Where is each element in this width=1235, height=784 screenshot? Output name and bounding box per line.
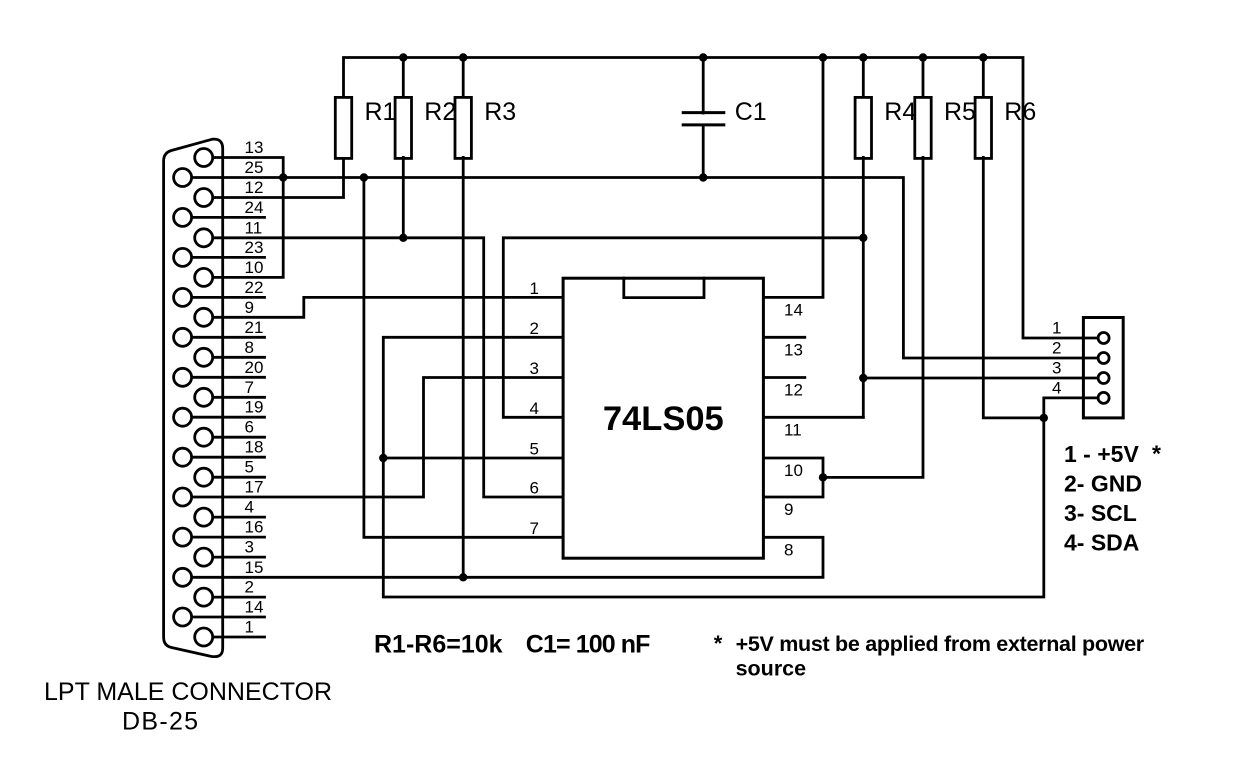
svg-text:1: 1 xyxy=(245,618,254,637)
DB25 pin 13 circle and label xyxy=(195,138,264,167)
svg-text:2: 2 xyxy=(1052,339,1061,358)
node: SDA-R6 junction xyxy=(1040,414,1048,422)
DB25 pin 18 circle and label xyxy=(174,438,264,467)
svg-text:1: 1 xyxy=(1052,319,1061,338)
wire: DB25 pin 18 stub xyxy=(193,456,265,459)
svg-text:*: * xyxy=(1152,441,1161,467)
wire: DB25 pin 7 stub xyxy=(214,396,264,399)
svg-text:5: 5 xyxy=(245,458,254,477)
connector J1 DB-25 male shell xyxy=(164,139,223,657)
svg-text:21: 21 xyxy=(245,318,264,337)
svg-text:3- SCL: 3- SCL xyxy=(1064,500,1137,526)
wire: GND vertical to IC pin7 xyxy=(364,178,565,538)
DB25 pin 15 circle and label xyxy=(174,558,264,587)
svg-text:2: 2 xyxy=(530,319,539,338)
wire: +5V rail with R1 lead and J2 pin1 feed xyxy=(344,58,1098,339)
J2 pin 1 circle and label xyxy=(1052,319,1109,344)
DB25 pin 21 circle and label xyxy=(174,318,264,347)
connector J2 4-pin header body xyxy=(1083,318,1123,418)
svg-text:R1-R6=10k: R1-R6=10k xyxy=(374,630,503,658)
svg-text:2- GND: 2- GND xyxy=(1064,471,1142,497)
svg-text:3: 3 xyxy=(1052,359,1061,378)
node: R3-read junction xyxy=(459,573,467,581)
svg-text:R2: R2 xyxy=(424,98,456,126)
svg-text:14: 14 xyxy=(784,300,803,319)
node: rail-R6 junction xyxy=(979,53,987,61)
wire: IC pin11 to SCL node xyxy=(762,416,863,419)
wire: DB25 pin11 to IC pin6 xyxy=(214,238,564,497)
svg-text:1: 1 xyxy=(530,279,539,298)
node: rail-R3 junction xyxy=(459,53,467,61)
svg-text:8: 8 xyxy=(784,540,793,559)
wire: DB25 pin13 to pin10 bracket xyxy=(214,158,283,278)
wire: GND net - DB25 pin25 to J2 pin2 xyxy=(193,178,1097,359)
DB25 pin 14 circle and label xyxy=(174,598,264,627)
svg-text:R3: R3 xyxy=(484,98,516,126)
resistor R5 10k xyxy=(915,97,976,158)
svg-text:10: 10 xyxy=(784,461,803,480)
DB25 pin 6 circle and label xyxy=(195,418,254,447)
DB25 pin 22 circle and label xyxy=(174,278,264,307)
DB25 pin 19 circle and label xyxy=(174,398,264,427)
node: rail-pin14 junction xyxy=(819,53,827,61)
svg-text:R6: R6 xyxy=(1004,98,1036,126)
node: pin11-R2 junction xyxy=(399,234,407,242)
wire: IC pin4 net to R4 xyxy=(503,238,863,417)
DB25 pin 5 circle and label xyxy=(195,458,254,487)
node: rail-R5 junction xyxy=(919,53,927,61)
node: GND-C1 junction xyxy=(699,173,707,181)
svg-text:13: 13 xyxy=(245,138,264,157)
DB25 pin 3 circle and label xyxy=(195,538,254,567)
node: rail-R4 junction xyxy=(859,53,867,61)
svg-text:LPT MALE CONNECTOR: LPT MALE CONNECTOR xyxy=(44,678,332,706)
DB25 pin 12 circle and label xyxy=(195,178,264,207)
resistor R3 10k xyxy=(455,97,516,158)
svg-text:18: 18 xyxy=(245,438,264,457)
wire: DB25 pin12 to R1 bottom xyxy=(214,157,343,197)
resistor R6 10k xyxy=(975,97,1036,158)
wire: DB25 pin 19 stub xyxy=(193,416,265,419)
node: rail-C1 junction xyxy=(699,53,707,61)
svg-text:12: 12 xyxy=(784,381,803,400)
wire: DB25 pin 4 stub xyxy=(214,516,264,519)
wire: DB25 pin 22 stub xyxy=(193,296,265,299)
wire: DB25 pin 2 stub xyxy=(214,596,264,599)
wire: IC pin13 stub xyxy=(762,336,805,339)
resistor R4 10k xyxy=(855,97,916,158)
wire: DB25 pin 1 stub xyxy=(214,636,264,639)
wire: DB25 pin15 to IC pin8 xyxy=(193,537,823,577)
wire: R4 bottom lead to SCL node and IC pin11 xyxy=(862,157,865,417)
node: SDA-pin5 junction xyxy=(379,454,387,462)
svg-text:14: 14 xyxy=(245,598,264,617)
svg-text:16: 16 xyxy=(245,518,264,537)
svg-text:9: 9 xyxy=(245,298,254,317)
svg-text:19: 19 xyxy=(245,398,264,417)
resistor R2 10k xyxy=(395,97,456,158)
svg-text:17: 17 xyxy=(245,478,264,497)
svg-text:4: 4 xyxy=(530,399,539,418)
svg-text:1 - +5V: 1 - +5V xyxy=(1064,441,1139,467)
svg-text:20: 20 xyxy=(245,358,264,377)
svg-text:23: 23 xyxy=(245,238,264,257)
svg-text:R5: R5 xyxy=(944,98,976,126)
wire: DB25 pin 8 stub xyxy=(214,356,264,359)
wire: C1 top lead xyxy=(702,58,705,114)
wire: DB25 pin 14 stub xyxy=(193,616,265,619)
svg-text:4: 4 xyxy=(1052,378,1061,397)
wire: R5 bottom lead to IC pins 9-10 xyxy=(823,157,923,477)
svg-text:6: 6 xyxy=(245,418,254,437)
DB25 pin 16 circle and label xyxy=(174,518,264,547)
J2 pin 2 circle and label xyxy=(1052,339,1109,364)
DB25 pin 25 circle and label xyxy=(174,158,264,187)
DB25 pin 1 circle and label xyxy=(195,618,254,647)
wire: IC pin5 to SDA vertical xyxy=(383,457,564,460)
svg-text:R4: R4 xyxy=(884,98,916,126)
wire: SCL node to J2 pin3 xyxy=(863,377,1097,380)
svg-text:7: 7 xyxy=(245,378,254,397)
wire: R5 top lead xyxy=(922,58,925,99)
svg-text:15: 15 xyxy=(245,558,264,577)
J2 pin 3 circle and label xyxy=(1052,359,1109,384)
wire: SDA net - IC pin2 down and across to J2 pin4 xyxy=(383,337,1097,597)
svg-text:22: 22 xyxy=(245,278,264,297)
DB25 pin 7 circle and label xyxy=(195,378,254,407)
DB25 pin 2 circle and label xyxy=(195,578,254,607)
wire: R3 bottom lead to SDA-read net xyxy=(462,157,465,577)
DB25 pin 17 circle and label xyxy=(174,478,264,507)
svg-text:12: 12 xyxy=(245,178,264,197)
svg-text:4- SDA: 4- SDA xyxy=(1064,530,1139,556)
svg-text:R1: R1 xyxy=(365,98,397,126)
svg-text:7: 7 xyxy=(530,519,539,538)
node: GND-bracket junction xyxy=(279,173,287,181)
wire: DB25 pin 16 stub xyxy=(193,536,265,539)
svg-text:74LS05: 74LS05 xyxy=(603,400,724,438)
svg-text:9: 9 xyxy=(784,500,793,519)
node: R5-tie junction xyxy=(819,473,827,481)
wire: R2 top lead xyxy=(402,58,405,99)
op-amp/IC U1 74LS05 body xyxy=(563,278,763,558)
wire: DB25 pin 24 stub xyxy=(193,216,265,219)
DB25 pin 23 circle and label xyxy=(174,238,264,267)
svg-text:*: * xyxy=(714,631,723,656)
wire: DB25 pin 3 stub xyxy=(214,556,264,559)
svg-text:source: source xyxy=(736,657,807,681)
resistor R1 10k xyxy=(335,97,396,158)
wire: DB25 pin9 to IC pin1 xyxy=(214,297,564,317)
svg-text:24: 24 xyxy=(245,198,264,217)
wire: DB25 pin 5 stub xyxy=(214,476,264,479)
wire: DB25 pin 20 stub xyxy=(193,376,265,379)
wire: DB25 pin 23 stub xyxy=(193,256,265,259)
node: rail-R2 junction xyxy=(399,53,407,61)
DB25 pin 24 circle and label xyxy=(174,198,264,227)
svg-text:13: 13 xyxy=(784,340,803,359)
wire: DB25 pin17 to IC pin3 xyxy=(193,378,565,498)
wire: R3 top lead xyxy=(462,58,465,99)
svg-text:8: 8 xyxy=(245,338,254,357)
wire: R4 top lead xyxy=(862,58,865,99)
node: R4-pin4net junction xyxy=(859,234,867,242)
wire: R6 bottom lead to SDA node xyxy=(983,157,1044,418)
wire: C1 bottom lead to GND xyxy=(702,126,705,178)
node: SCL junction xyxy=(859,374,867,382)
DB25 pin 4 circle and label xyxy=(195,498,254,527)
wire: +5V rail to IC pin14 xyxy=(762,58,823,298)
wire: R6 top lead xyxy=(982,58,985,99)
svg-text:2: 2 xyxy=(245,578,254,597)
svg-text:10: 10 xyxy=(245,258,264,277)
svg-text:25: 25 xyxy=(245,158,264,177)
capacitor C1 100nF xyxy=(683,98,766,126)
DB25 pin 10 circle and label xyxy=(195,258,264,287)
wire: R2 bottom lead to DB25 pin11 net xyxy=(402,157,405,237)
DB25 pin 9 circle and label xyxy=(195,298,254,327)
svg-text:C1: C1 xyxy=(735,98,767,126)
J2 pin 4 circle and label xyxy=(1052,378,1109,403)
DB25 pin 20 circle and label xyxy=(174,358,264,387)
wire: IC pins 9 and 10 tie xyxy=(762,458,823,497)
svg-text:3: 3 xyxy=(530,359,539,378)
wire: DB25 pin 6 stub xyxy=(214,436,264,439)
DB25 pin 8 circle and label xyxy=(195,338,254,367)
wire: DB25 pin 21 stub xyxy=(193,336,265,339)
svg-text:6: 6 xyxy=(530,479,539,498)
svg-text:3: 3 xyxy=(245,538,254,557)
svg-text:DB-25: DB-25 xyxy=(122,708,199,736)
wire: IC pin12 stub xyxy=(762,376,805,379)
svg-text:11: 11 xyxy=(245,218,263,237)
svg-text:11: 11 xyxy=(784,420,802,439)
svg-text:4: 4 xyxy=(245,498,254,517)
svg-text:5: 5 xyxy=(530,440,539,459)
svg-text:C1= 100 nF: C1= 100 nF xyxy=(526,630,650,658)
node: GND-IC7 junction xyxy=(360,173,368,181)
DB25 pin 11 circle and label xyxy=(195,218,262,247)
svg-text:+5V must be applied from exter: +5V must be applied from external power xyxy=(736,632,1145,656)
